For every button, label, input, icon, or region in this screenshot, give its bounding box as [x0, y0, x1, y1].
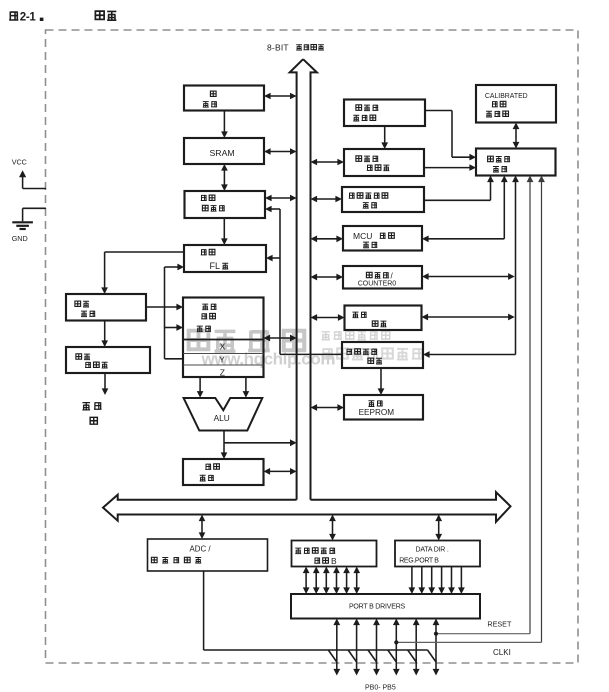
- wire ALU to bus: [224, 442, 291, 444]
- svg-text:X: X: [220, 342, 226, 352]
- svg-text:PB0- PB5: PB0- PB5: [365, 684, 396, 691]
- ground symbol: [12, 221, 33, 223]
- svg-text:GND: GND: [12, 234, 28, 243]
- interrupt unit to bus arrow: [316, 317, 339, 319]
- instruction register box: [66, 294, 146, 321]
- status register to bus arrow: [269, 470, 291, 472]
- control lines label: [82, 403, 90, 410]
- svg-text:VCC: VCC: [12, 158, 27, 167]
- wire watchdog timer to timing and control: [424, 167, 470, 169]
- MCU control register box: [342, 187, 424, 212]
- svg-text:B: B: [331, 556, 337, 566]
- EEPROM to bus arrow: [316, 407, 338, 409]
- vertical data bus arrow: [290, 59, 303, 500]
- svg-text:SRAM: SRAM: [210, 148, 235, 158]
- wire flash to instruction register: [105, 251, 184, 253]
- CLKI wire: [541, 181, 543, 642]
- wire watchdog oscillator to timing and control: [425, 110, 452, 112]
- wire ADC to pins: [203, 571, 205, 650]
- watermark hqchip big text: [189, 331, 209, 350]
- data direction register to drivers arrows: [411, 567, 413, 589]
- registers to bus arrow: [269, 337, 291, 339]
- svg-text:Y: Y: [219, 355, 225, 365]
- port b drivers box: [291, 594, 480, 619]
- MCU control register to bus arrow: [316, 198, 336, 200]
- status register box: [183, 459, 264, 485]
- wire timing to MCU status register: [503, 181, 505, 239]
- svg-text:MCU: MCU: [353, 231, 372, 241]
- calibrated internal oscillator box: [476, 85, 556, 123]
- wire programming logic to program counter: [280, 353, 342, 355]
- svg-text:CALIBRATED: CALIBRATED: [485, 93, 528, 100]
- timer counter0 to bus arrow: [316, 276, 337, 278]
- svg-text:ALU: ALU: [214, 413, 230, 423]
- wire stack pointer to SRAM: [223, 111, 225, 133]
- general purpose registers box: [183, 298, 264, 378]
- SRAM box: [184, 138, 264, 164]
- wire branch to flash: [272, 257, 280, 259]
- program counter box: [185, 191, 266, 218]
- svg-text:DATA DIR .: DATA DIR .: [416, 547, 449, 554]
- data direction register box: [395, 541, 480, 567]
- interrupt unit to timing line arrow: [427, 316, 509, 318]
- bus to data direction register arrow: [438, 520, 440, 535]
- title figure number: [9, 11, 18, 20]
- svg-text:CLKI: CLKI: [493, 648, 511, 657]
- wire instruction register to decoder: [104, 321, 106, 342]
- svg-text:8-BIT: 8-BIT: [267, 43, 289, 53]
- port b data register box: [292, 541, 377, 567]
- wire registers Y to flash: [165, 358, 184, 360]
- MCU status register to bus arrow: [316, 238, 337, 240]
- interrupt unit box: [345, 306, 422, 331]
- watermark small text line1: [322, 332, 330, 340]
- program flash box: [184, 245, 266, 272]
- svg-text:EEPROM: EEPROM: [359, 408, 395, 417]
- svg-text:RESET: RESET: [487, 620, 512, 629]
- svg-text:REG.PORT B: REG.PORT B: [399, 557, 439, 564]
- RESET wire: [529, 181, 531, 634]
- timer counter0 box: [343, 266, 422, 289]
- wire watchdog oscillator to watchdog timer: [384, 126, 386, 143]
- GND wire: [23, 207, 46, 209]
- watchdog timer to bus arrow: [316, 161, 338, 163]
- data EEPROM box: [344, 395, 423, 420]
- svg-text:FL: FL: [210, 261, 221, 271]
- svg-text:2-1: 2-1: [20, 12, 37, 24]
- svg-text:ADC /: ADC /: [190, 545, 212, 554]
- port b pin lines: [336, 624, 338, 670]
- wire branch to registers: [165, 327, 178, 329]
- white box fills: [184, 86, 264, 111]
- wire decoder to control lines: [104, 373, 106, 389]
- timing and control box: [476, 149, 556, 176]
- wire ALU to status register: [223, 431, 225, 443]
- wire timing to programming logic: [515, 181, 517, 354]
- horizontal data bus: [103, 492, 511, 522]
- MCU status register box: [343, 226, 422, 251]
- VCC supply arrow: [22, 176, 24, 189]
- title text: [95, 11, 104, 19]
- wire programming logic to EEPROM: [380, 368, 382, 389]
- stack pointer box: [184, 86, 264, 111]
- watermark small text line2: [322, 348, 333, 358]
- stack pointer to bus arrow: [270, 95, 291, 97]
- program counter to bus arrow: [271, 197, 291, 199]
- wire program counter to flash: [223, 218, 225, 239]
- svg-text:Z: Z: [220, 367, 225, 377]
- watchdog timer box: [344, 149, 424, 176]
- programming logic box: [342, 342, 423, 368]
- wire MCU control register to timing: [424, 199, 491, 201]
- watchdog oscillator box: [344, 100, 425, 127]
- bus to port b data register arrow: [332, 520, 334, 535]
- wire instruction register to registers: [146, 306, 177, 308]
- ADC analog comparator box: [148, 539, 268, 571]
- timer counter0 to timing line arrow: [428, 276, 510, 278]
- calibrated oscillator to timing arrow: [515, 128, 517, 143]
- wires registers to ALU: [199, 377, 201, 392]
- svg-text:COUNTER0: COUNTER0: [358, 281, 397, 288]
- wire SRAM to program counter: [223, 170, 225, 186]
- SRAM to bus arrow: [270, 151, 291, 153]
- ALU: [184, 398, 263, 431]
- instruction decoder box: [66, 347, 150, 373]
- port b data register to drivers arrows: [305, 572, 307, 588]
- analog input taps: [328, 650, 337, 662]
- bus to ADC arrow: [201, 520, 203, 533]
- svg-text:PORT B DRIVERS: PORT B DRIVERS: [349, 604, 406, 611]
